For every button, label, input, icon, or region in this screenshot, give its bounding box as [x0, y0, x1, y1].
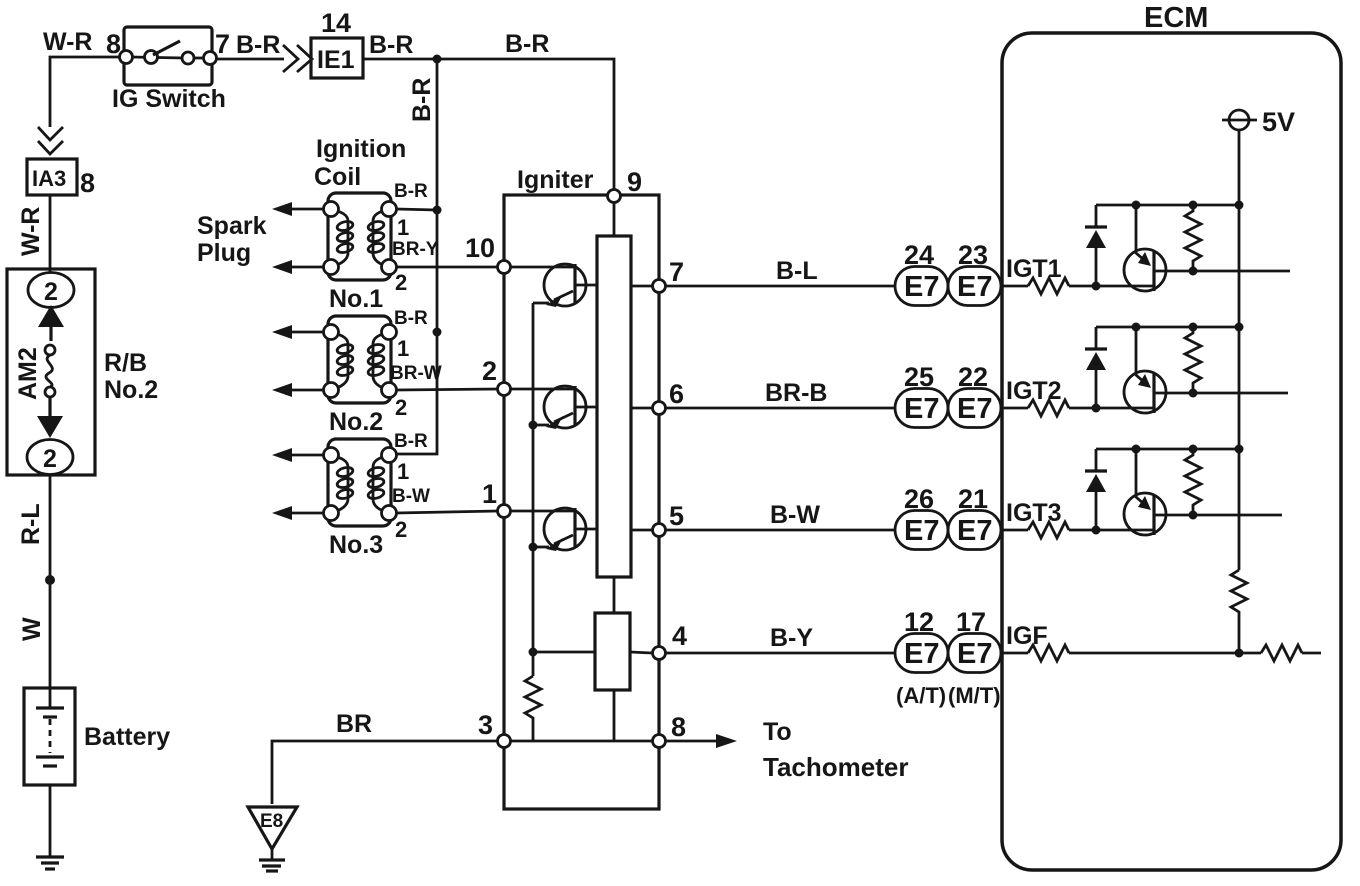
svg-text:B-R: B-R	[394, 181, 428, 202]
wire IA3 to R/B No.2	[49, 195, 52, 274]
battery B1	[24, 688, 75, 785]
svg-text:B-R: B-R	[394, 308, 428, 329]
svg-text:2: 2	[395, 395, 407, 420]
resistor R9 (IGF series)	[1261, 645, 1302, 661]
relay block R/B No.2	[7, 269, 95, 475]
junction emitter Q3	[529, 543, 538, 552]
wire IC output to pin 7	[631, 285, 652, 288]
ignition coil No.1	[324, 193, 397, 280]
svg-text:B-R: B-R	[408, 78, 436, 122]
ignition coil No.2	[324, 316, 397, 403]
svg-text:8: 8	[80, 168, 95, 198]
svg-text:B-R: B-R	[369, 31, 413, 59]
wire coil No.3 pin 2 to igniter pin 1	[396, 511, 498, 513]
wire R-L / W to battery	[49, 474, 52, 688]
svg-text:8: 8	[671, 712, 686, 742]
junction dot B-R bus coil No.2	[433, 328, 442, 337]
wire coil No.2 pin 2 to igniter pin 2	[396, 389, 498, 390]
svg-text:22: 22	[958, 362, 988, 392]
svg-text:Plug: Plug	[197, 239, 251, 267]
wire IC to tach module	[613, 577, 616, 613]
svg-text:BR: BR	[336, 710, 372, 738]
label R/B No.2	[104, 349, 158, 404]
svg-text:25: 25	[904, 362, 934, 392]
label Spark Plug	[197, 212, 267, 267]
svg-text:2: 2	[482, 356, 497, 386]
svg-text:14: 14	[321, 8, 351, 38]
svg-text:B-L: B-L	[776, 257, 818, 285]
wire E7 into ECM (IGT2)	[1001, 407, 1028, 410]
igniter pin 3	[498, 735, 511, 748]
svg-text:12: 12	[904, 607, 934, 637]
ECM box	[1002, 33, 1341, 870]
svg-text:W-R: W-R	[43, 28, 92, 56]
splice node R-L/W	[45, 575, 55, 585]
spark plug arrow (No.3 upper)	[272, 448, 324, 462]
svg-text:2: 2	[43, 445, 57, 473]
wire pin 8 to tachometer	[666, 740, 722, 743]
wire collector IGT1	[1154, 270, 1290, 273]
connector E7 pair (IGF)	[895, 634, 1001, 673]
resistor R4 (IGT2 input)	[1028, 400, 1069, 416]
connector cavity 2 (bottom)	[27, 440, 73, 475]
power transistor Q1 (igniter)	[511, 264, 597, 307]
svg-text:BR-Y: BR-Y	[392, 239, 439, 260]
svg-text:AM2: AM2	[14, 347, 42, 400]
ignition coil No.3	[324, 439, 397, 526]
igniter pin 9	[608, 190, 621, 203]
wire battery to ground	[49, 785, 52, 856]
ground (battery)	[36, 857, 64, 869]
ECM driver cell IGT2 (diode D2, transistor Q5, resistor R5)	[1069, 323, 1244, 414]
svg-text:ECM: ECM	[1144, 2, 1208, 34]
connector E7 pair (IGT1)	[895, 267, 1001, 306]
wire igniter pin 9 to driver IC	[613, 199, 616, 236]
junction IGF pullup	[1235, 649, 1244, 658]
svg-text:R-L: R-L	[17, 503, 45, 545]
svg-text:BR-B: BR-B	[765, 379, 828, 407]
connector arrows into IE1	[283, 45, 298, 72]
svg-text:No.2: No.2	[104, 376, 158, 404]
igniter pin 2	[498, 383, 511, 396]
svg-text:1: 1	[397, 459, 409, 484]
svg-text:17: 17	[956, 607, 986, 637]
svg-text:4: 4	[672, 621, 687, 651]
svg-text:IA3: IA3	[32, 166, 66, 191]
wire IGF stub	[1302, 652, 1321, 655]
spark plug arrow (No.1 upper)	[272, 202, 324, 216]
svg-text:(A/T): (A/T)	[896, 683, 946, 708]
connector arrows into IA3	[38, 127, 63, 154]
svg-text:24: 24	[904, 240, 934, 270]
tach signal module (igniter)	[595, 613, 630, 690]
svg-text:Coil: Coil	[314, 163, 361, 191]
svg-text:B-R: B-R	[505, 30, 549, 58]
ground E8	[248, 807, 297, 871]
svg-text:2: 2	[395, 517, 407, 542]
wire B-R vertical bus to ignition coils	[396, 59, 437, 454]
wire tach module to pin 4	[630, 652, 652, 653]
svg-text:2: 2	[44, 278, 58, 306]
wire collector IGT2	[1154, 392, 1288, 395]
connector E7 pair (IGT3)	[895, 511, 1001, 550]
node junction B-R at x437	[433, 55, 442, 64]
junction dot B-R bus coil No.1	[433, 206, 442, 215]
svg-text:E8: E8	[260, 811, 283, 832]
svg-text:1: 1	[397, 336, 409, 361]
wire W-R from IG switch pin 8 down-left	[50, 57, 124, 127]
igniter pin 6	[653, 402, 666, 415]
svg-text:Battery: Battery	[84, 723, 170, 751]
svg-text:IGF: IGF	[1006, 622, 1048, 650]
svg-text:5: 5	[669, 501, 684, 531]
wire IGF pin 4 to connector E7	[666, 652, 895, 655]
svg-text:26: 26	[904, 484, 934, 514]
svg-text:B-Y: B-Y	[770, 624, 813, 652]
spark plug arrow (No.3 lower)	[272, 506, 324, 520]
resistor R1 (igniter)	[525, 676, 541, 741]
wire B-R from IE1 to igniter pin 9	[363, 59, 614, 191]
junction connector IA3	[27, 159, 77, 195]
svg-text:No.3: No.3	[329, 531, 383, 559]
svg-text:B-R: B-R	[394, 431, 428, 452]
fuse AM2	[37, 305, 64, 438]
spark plug arrow (No.2 upper)	[272, 325, 324, 339]
junction tach feed	[529, 648, 538, 657]
wire coil No.1 pin 1 to B-R bus	[396, 209, 437, 210]
wire collector IGT3	[1154, 514, 1282, 517]
spark plug arrow (No.2 lower)	[272, 383, 324, 397]
wire tach module to pin 8	[613, 690, 616, 741]
igniter pin 4	[653, 647, 666, 660]
wire E7 into ECM (IGF)	[1001, 652, 1028, 655]
svg-text:No.1: No.1	[329, 285, 383, 313]
svg-text:1: 1	[482, 479, 497, 509]
connector E7 pair (IGT2)	[895, 389, 1001, 428]
ECM driver cell IGT3 (diode D3, transistor Q6, resistor R7)	[1069, 445, 1244, 536]
arrow to tachometer	[716, 734, 737, 748]
svg-text:7: 7	[215, 29, 230, 59]
power transistor Q2 (igniter)	[511, 386, 597, 429]
resistor R2 (IGT1 input)	[1028, 278, 1069, 294]
wire BR from pin 3 to ground E8	[272, 741, 498, 804]
IG Switch SW1	[120, 27, 217, 85]
svg-text:B-R: B-R	[236, 31, 280, 59]
svg-text:Tachometer: Tachometer	[763, 752, 908, 782]
label Ignition Coil	[314, 135, 406, 191]
svg-text:IG Switch: IG Switch	[112, 85, 226, 113]
svg-text:Igniter: Igniter	[517, 166, 594, 194]
svg-text:(M/T): (M/T)	[948, 683, 1001, 708]
junction connector IE1	[311, 38, 363, 78]
wire 5V rail vertical	[1238, 130, 1241, 570]
svg-text:Spark: Spark	[197, 212, 267, 240]
wire IG switch to IE1	[216, 58, 284, 61]
wire pin 3 to pin 8 (ground rail)	[511, 740, 652, 743]
igniter pin 1	[498, 505, 511, 518]
connector cavity 2 (top)	[28, 273, 74, 308]
svg-text:6: 6	[669, 379, 684, 409]
wire E7 into ECM (IGT3)	[1001, 529, 1028, 532]
ECM driver cell IGT1 (diode D1, transistor Q4, resistor R3)	[1069, 201, 1244, 292]
resistor R6 (IGT3 input)	[1028, 522, 1069, 538]
spark plug arrow (No.1 lower)	[272, 260, 324, 274]
wire IC output to pin 6	[631, 407, 652, 410]
power supply 5V	[1222, 107, 1295, 137]
wire emitter bus to tach module	[533, 651, 595, 654]
resistor R10 (IGF pullup)	[1231, 570, 1247, 653]
svg-text:3: 3	[478, 710, 493, 740]
wire coil No.1 pin 2 to igniter pin 10	[396, 266, 498, 269]
wire IGF to pullup node	[1069, 652, 1261, 655]
svg-text:To: To	[763, 718, 792, 746]
svg-text:W-R: W-R	[17, 207, 45, 256]
label To Tachometer	[763, 718, 908, 782]
svg-text:1: 1	[397, 215, 409, 240]
svg-text:R/B: R/B	[104, 349, 147, 377]
power transistor Q3 (igniter)	[511, 508, 597, 551]
wire IGT2 pin 6 to connector E7	[666, 407, 895, 410]
igniter box	[504, 195, 659, 809]
svg-text:23: 23	[958, 240, 988, 270]
wire E7 into ECM (IGT1)	[1001, 285, 1028, 288]
svg-text:B-W: B-W	[770, 501, 820, 529]
wire IC output to pin 5	[631, 529, 652, 532]
svg-text:W: W	[18, 617, 46, 641]
svg-text:9: 9	[627, 167, 642, 197]
svg-text:21: 21	[958, 484, 988, 514]
svg-text:BR-W: BR-W	[390, 363, 442, 384]
svg-text:Ignition: Ignition	[316, 135, 406, 163]
junction emitter Q2	[529, 421, 538, 430]
svg-text:IE1: IE1	[317, 46, 355, 74]
wire IGT3 pin 5 to connector E7	[666, 529, 895, 532]
svg-text:No.2: No.2	[329, 408, 383, 436]
svg-text:7: 7	[669, 257, 684, 287]
igniter pin 7	[653, 280, 666, 293]
svg-text:2: 2	[395, 270, 407, 295]
svg-text:B-W: B-W	[392, 486, 430, 507]
svg-text:10: 10	[465, 233, 495, 263]
wire IGT1 pin 7 to connector E7	[666, 285, 895, 288]
igniter pin 5	[653, 524, 666, 537]
igniter pin 8	[653, 735, 666, 748]
driver IC (hybrid circuit)	[597, 236, 631, 577]
svg-text:5V: 5V	[1262, 107, 1295, 137]
wire emitter common bus	[532, 303, 535, 676]
igniter pin 10	[498, 261, 511, 274]
resistor R8 (IGF input)	[1028, 645, 1069, 661]
